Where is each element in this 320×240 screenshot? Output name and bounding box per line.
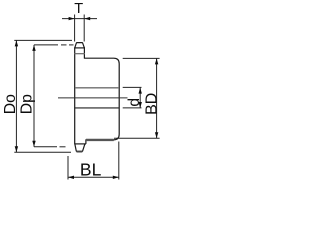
plate left edge <box>74 48 76 144</box>
sprocket body outline <box>74 43 119 152</box>
extension line T right <box>83 15 85 42</box>
extension line Dp bottom (dash-dot) <box>34 146 66 148</box>
svg-text:T: T <box>74 1 83 17</box>
arrow T right <box>84 17 90 20</box>
dimension line d <box>139 88 141 108</box>
arrow Dp bottom <box>32 141 35 147</box>
tooth root line (gray) <box>74 53 85 55</box>
top tooth profile <box>75 43 85 48</box>
bore top line <box>75 87 119 89</box>
extension line BL left <box>67 156 69 180</box>
top tooth base line <box>74 47 85 49</box>
hub bottom shade line <box>86 139 114 141</box>
arrow d bottom <box>139 102 142 108</box>
arrow Dp top <box>32 45 35 51</box>
extension line d top <box>123 86 142 88</box>
svg-text:BD: BD <box>143 93 160 115</box>
bore bottom line <box>75 107 119 109</box>
arrow T left <box>69 17 75 20</box>
arrow Do top <box>15 40 18 46</box>
dimension line Dp <box>33 45 35 147</box>
plate right face and hub top edge <box>84 48 119 144</box>
arrow d top <box>139 88 142 94</box>
extension line Do top <box>14 39 72 41</box>
extension line BD bottom <box>114 137 160 139</box>
dimension line T <box>62 18 97 20</box>
extension line BD top <box>123 57 160 59</box>
arrow Do bottom <box>15 146 18 152</box>
extension line BL right <box>118 142 120 180</box>
svg-text:Dp: Dp <box>19 94 36 114</box>
bottom tooth profile <box>75 144 85 152</box>
arrow BD top <box>155 58 158 64</box>
extension line Do bottom <box>14 151 71 153</box>
extension line Dp top (dash-dot) <box>34 44 74 46</box>
dimension line BL <box>68 176 119 178</box>
center line <box>58 97 128 99</box>
svg-text:BL: BL <box>80 159 102 179</box>
bottom tooth tip shade line <box>77 151 83 153</box>
bottom tooth base line <box>74 143 86 145</box>
extension line d bottom <box>123 107 142 109</box>
arrow BL right <box>113 176 119 179</box>
dimension line BD <box>156 58 158 138</box>
arrow BL left <box>68 176 74 179</box>
extension line T left <box>74 15 76 42</box>
dimension line Do <box>15 40 17 152</box>
arrow BD bottom <box>155 132 158 138</box>
